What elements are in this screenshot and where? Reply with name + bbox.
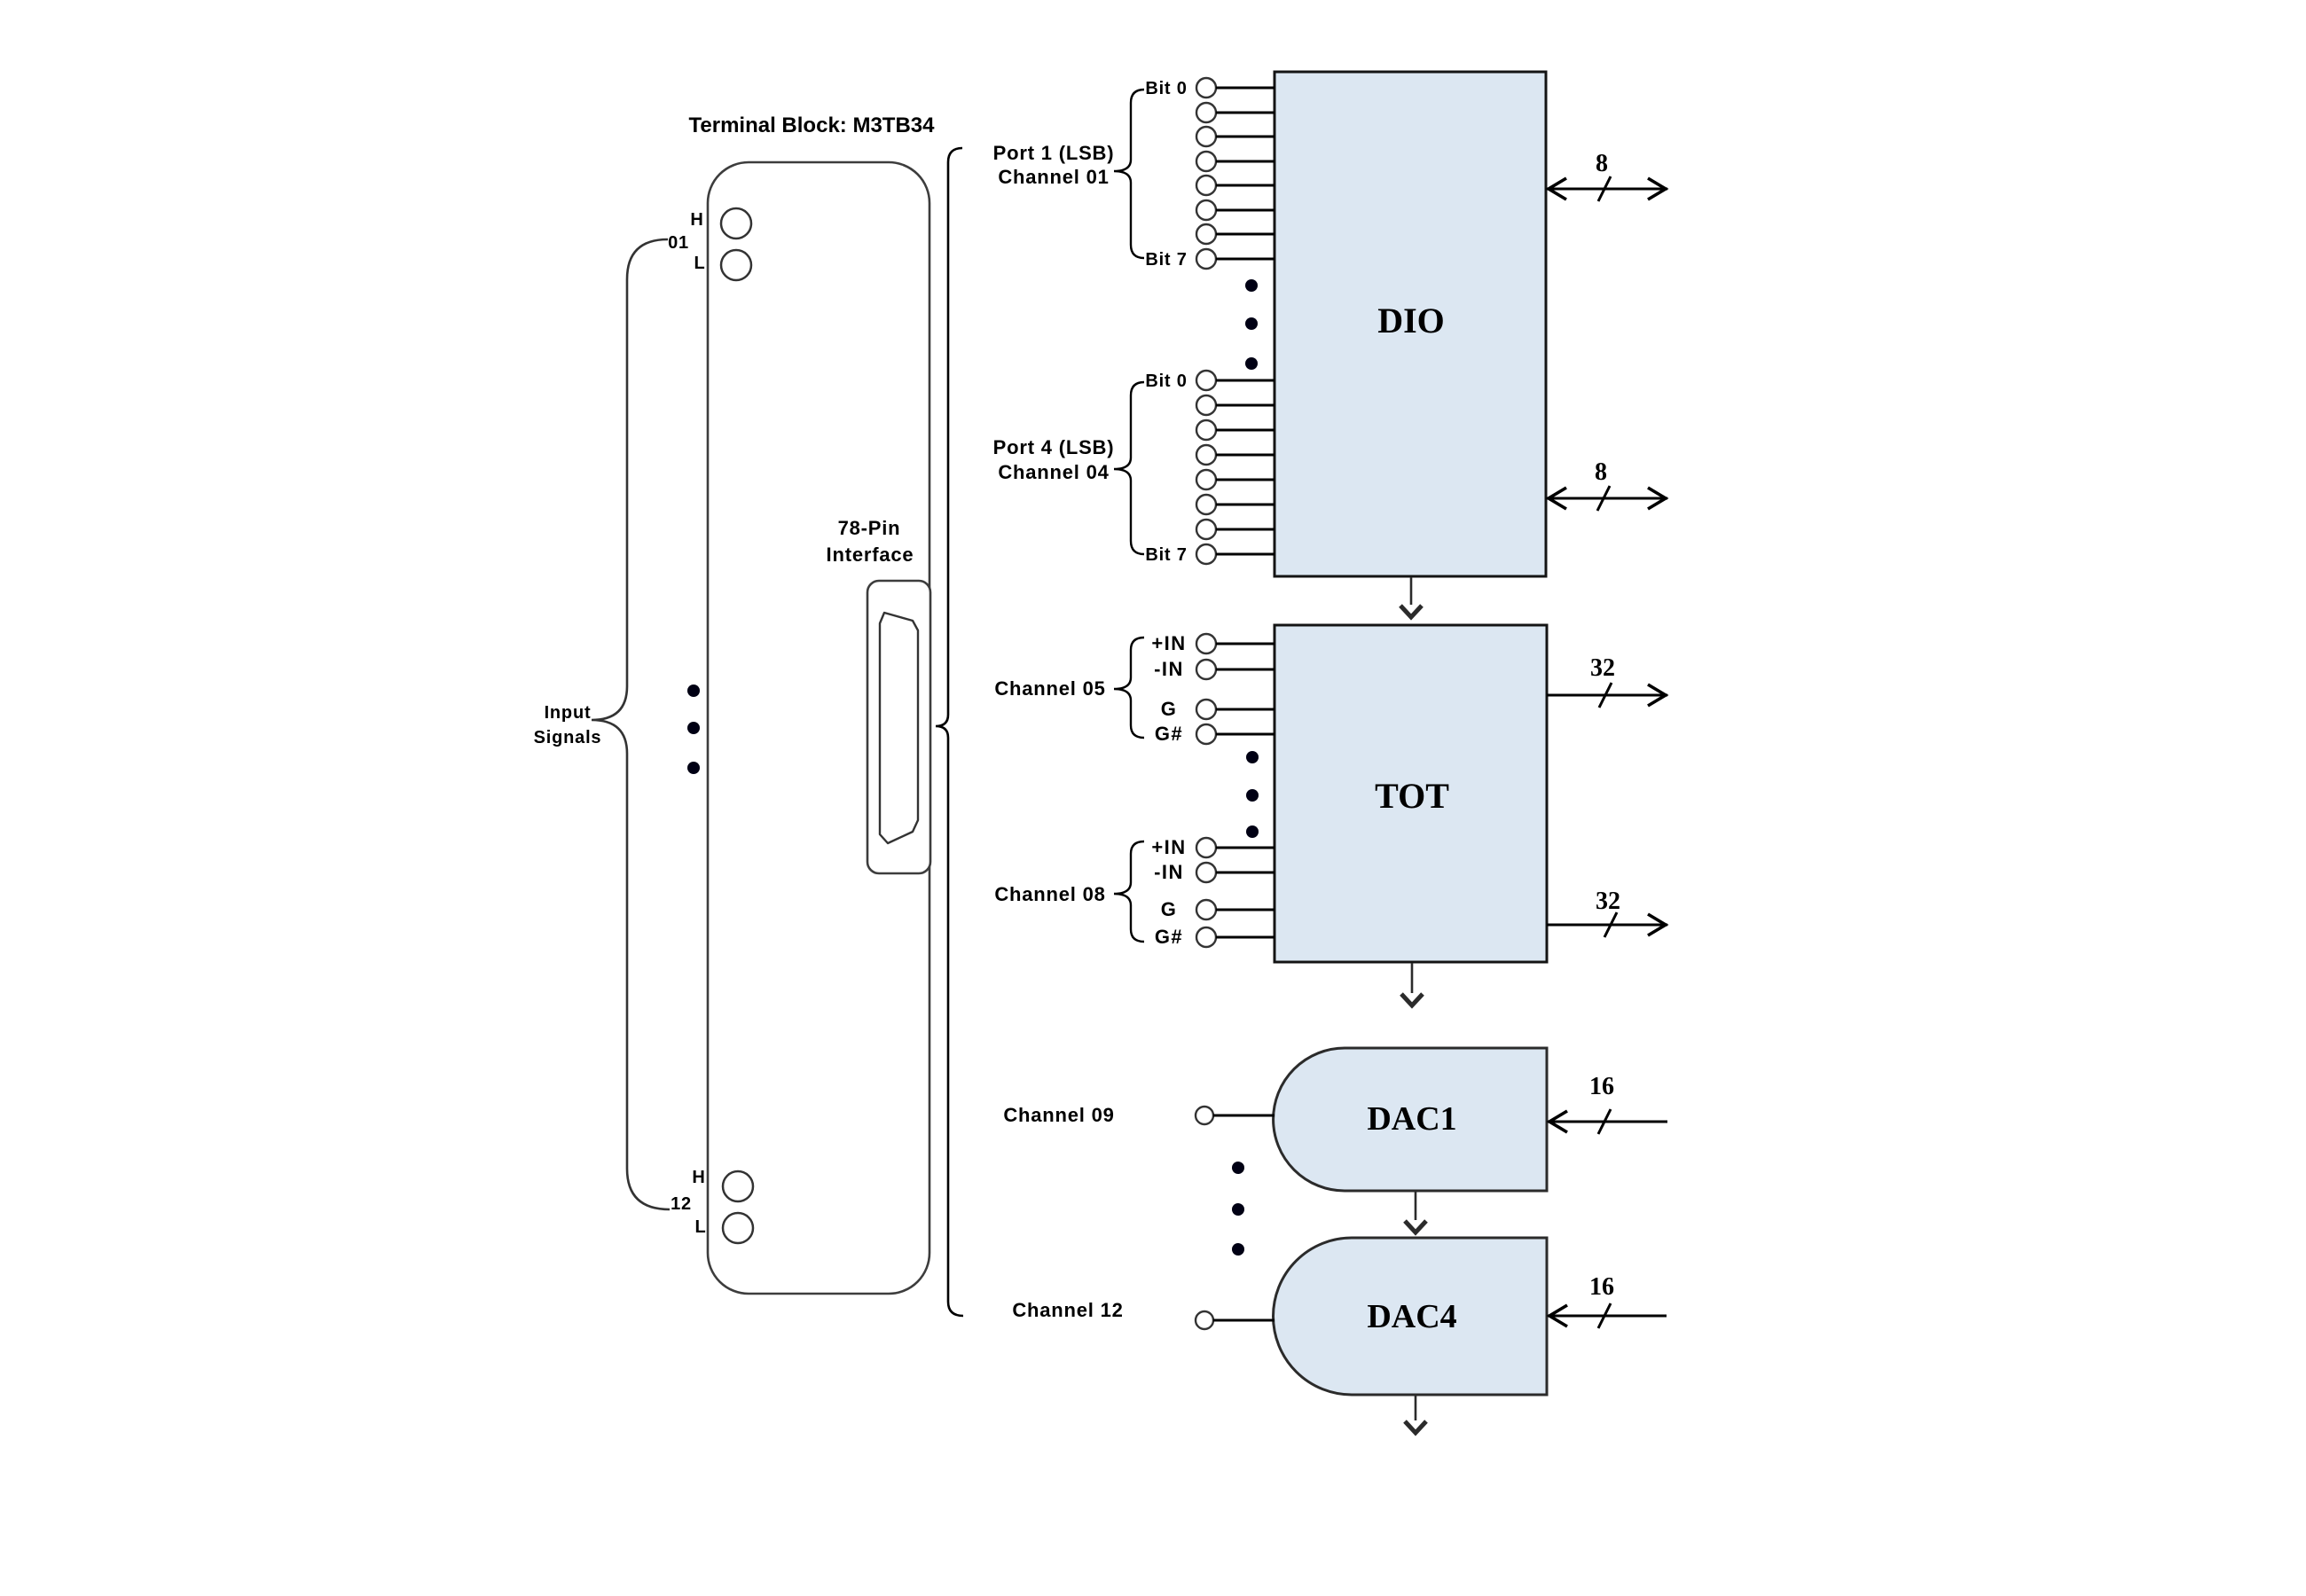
svg-text:12: 12 (671, 1194, 692, 1214)
svg-text:Interface: Interface (827, 544, 914, 566)
TOT channel05 data bus (1547, 694, 1667, 697)
svg-text:Channel 12: Channel 12 (1012, 1299, 1123, 1321)
svg-text:Terminal Block: M3TB34: Terminal Block: M3TB34 (689, 113, 936, 137)
svg-text:G#: G# (1155, 926, 1183, 948)
pin circle port4 bit 7 (1196, 544, 1216, 564)
svg-text:L: L (694, 1217, 706, 1237)
pin circle channel05 +IN (1196, 634, 1216, 653)
TOT channel08 data bus (1547, 924, 1667, 927)
svg-text:+IN: +IN (1151, 632, 1186, 654)
ellipsis dots TOT (1246, 751, 1259, 763)
pin circle port1 bit 4 (1196, 176, 1216, 195)
bus slash (1598, 176, 1611, 201)
bus slash (1598, 1109, 1611, 1134)
bus slash (1599, 683, 1612, 708)
wire channel08 -IN (1216, 872, 1275, 874)
pin circle channel05 G# (1196, 724, 1216, 744)
arrow DAC1 to DAC4 (1415, 1192, 1417, 1220)
wire channel08 +IN (1216, 847, 1275, 849)
pin circle port4 bit 0 (1196, 371, 1216, 390)
svg-text:Channel 05: Channel 05 (994, 677, 1105, 700)
DIO port1 data bus (1547, 188, 1667, 191)
wire port1 bit 4 (1216, 184, 1275, 187)
svg-text:-IN: -IN (1154, 658, 1184, 680)
svg-text:Port 1 (LSB): Port 1 (LSB) (993, 142, 1115, 164)
brace port 4 (1114, 382, 1144, 554)
wire port4 bit 5 (1216, 504, 1275, 506)
arrow DAC4 down (1415, 1396, 1417, 1420)
svg-text:G: G (1161, 698, 1178, 720)
pin circle port4 bit 4 (1196, 470, 1216, 489)
input signals brace (592, 239, 670, 1209)
svg-text:01: 01 (668, 233, 689, 253)
wire port4 bit 0 (1216, 379, 1275, 382)
svg-text:16: 16 (1589, 1073, 1614, 1100)
svg-text:8: 8 (1596, 150, 1608, 177)
pin circle channel08 G# (1196, 927, 1216, 947)
pin circle channel08 G (1196, 900, 1216, 919)
brace channel 08 (1114, 841, 1144, 942)
wire channel08 G (1216, 909, 1275, 911)
brace port 1 (1114, 90, 1144, 258)
ellipsis dots terminal block (687, 685, 700, 697)
svg-text:Input: Input (545, 703, 592, 723)
pin circle port4 bit 6 (1196, 520, 1216, 539)
svg-text:G: G (1161, 898, 1178, 920)
pin circle channel05 G (1196, 700, 1216, 719)
78-pin connector housing (867, 581, 930, 873)
svg-text:-IN: -IN (1154, 861, 1184, 883)
brace channel 05 (1114, 638, 1144, 738)
svg-text:Channel 09: Channel 09 (1003, 1104, 1114, 1126)
wire port1 bit 6 (1216, 233, 1275, 236)
wire port1 bit 2 (1216, 136, 1275, 138)
svg-text:78-Pin: 78-Pin (838, 517, 901, 539)
terminal 01 L screw (721, 250, 751, 280)
wire port1 bit 7 (1216, 258, 1275, 261)
pin circle channel08 +IN (1196, 838, 1216, 857)
pin circle channel 12 (1196, 1311, 1213, 1329)
pin circle port1 bit 1 (1196, 103, 1216, 122)
svg-text:Bit 0: Bit 0 (1145, 372, 1187, 391)
arrow DIO to TOT (1410, 577, 1413, 605)
wire channel 12 (1213, 1319, 1275, 1322)
svg-text:Channel 08: Channel 08 (994, 883, 1105, 905)
TOT block (1275, 625, 1547, 962)
wire port1 bit 1 (1216, 112, 1275, 114)
svg-text:G#: G# (1155, 723, 1183, 745)
wire port4 bit 1 (1216, 404, 1275, 407)
svg-text:Port 4 (LSB): Port 4 (LSB) (993, 436, 1115, 458)
svg-text:TOT: TOT (1375, 776, 1449, 816)
78-pin D-sub connector (880, 613, 918, 843)
wire port4 bit 2 (1216, 429, 1275, 432)
wire port1 bit 0 (1216, 87, 1275, 90)
svg-text:32: 32 (1590, 654, 1615, 682)
pin circle channel08 -IN (1196, 863, 1216, 882)
wire port4 bit 6 (1216, 528, 1275, 531)
wire port4 bit 4 (1216, 479, 1275, 481)
pin circle port4 bit 3 (1196, 445, 1216, 465)
svg-text:32: 32 (1596, 888, 1620, 915)
terminal block M3TB34 body (708, 162, 929, 1294)
pin circle port4 bit 5 (1196, 495, 1216, 514)
terminal 01 H screw (721, 208, 751, 239)
wire port1 bit 3 (1216, 160, 1275, 163)
svg-text:Channel 04: Channel 04 (998, 461, 1109, 483)
connector-to-channels brace (936, 148, 963, 1316)
DAC1 block (1274, 1048, 1547, 1191)
pin circle port1 bit 5 (1196, 200, 1216, 220)
ellipsis dots DIO (1245, 279, 1258, 292)
svg-text:Bit 7: Bit 7 (1145, 250, 1187, 270)
svg-text:H: H (692, 1168, 705, 1187)
wire channel05 -IN (1216, 669, 1275, 671)
svg-text:16: 16 (1589, 1273, 1614, 1301)
bus slash (1598, 1303, 1611, 1328)
pin circle port1 bit 3 (1196, 152, 1216, 171)
wire port1 bit 5 (1216, 209, 1275, 212)
wire channel 09 (1213, 1115, 1275, 1117)
svg-text:DAC1: DAC1 (1367, 1100, 1456, 1138)
DAC4 block (1274, 1238, 1548, 1395)
svg-text:8: 8 (1595, 458, 1607, 486)
ellipsis dots DAC (1232, 1162, 1244, 1174)
arrow TOT down (1411, 963, 1414, 993)
svg-text:Bit 7: Bit 7 (1145, 545, 1187, 565)
terminal 12 H screw (723, 1171, 753, 1201)
pin circle port1 bit 0 (1196, 78, 1216, 98)
svg-text:H: H (690, 210, 703, 230)
svg-text:L: L (694, 254, 705, 273)
terminal 12 L screw (723, 1213, 753, 1243)
pin circle channel 09 (1196, 1107, 1213, 1124)
DIO port4 data bus (1547, 497, 1667, 500)
wire channel05 G# (1216, 733, 1275, 736)
pin circle port1 bit 6 (1196, 224, 1216, 244)
svg-text:Channel 01: Channel 01 (998, 166, 1109, 188)
svg-text:Bit 0: Bit 0 (1145, 79, 1187, 98)
DIO block (1275, 72, 1546, 576)
bus slash (1597, 486, 1610, 511)
pin circle port1 bit 7 (1196, 249, 1216, 269)
pin circle port4 bit 1 (1196, 395, 1216, 415)
svg-text:DAC4: DAC4 (1367, 1298, 1456, 1335)
pin circle port1 bit 2 (1196, 127, 1216, 146)
DAC1 data bus (1548, 1121, 1667, 1123)
bus slash (1604, 912, 1617, 937)
svg-text:DIO: DIO (1377, 301, 1445, 340)
wire channel08 G# (1216, 936, 1275, 939)
DAC4 data bus (1548, 1315, 1667, 1318)
svg-text:Signals: Signals (534, 728, 602, 747)
wire port4 bit 7 (1216, 553, 1275, 556)
svg-text:+IN: +IN (1151, 836, 1186, 858)
wire port4 bit 3 (1216, 454, 1275, 457)
wire channel05 G (1216, 708, 1275, 711)
pin circle channel05 -IN (1196, 660, 1216, 679)
pin circle port4 bit 2 (1196, 420, 1216, 440)
wire channel05 +IN (1216, 643, 1275, 645)
